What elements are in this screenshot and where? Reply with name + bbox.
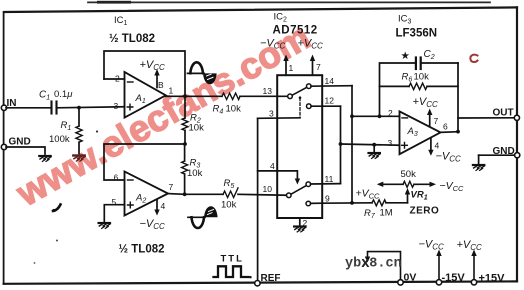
svg-text:6: 6: [114, 173, 119, 183]
node REF terminal: [255, 273, 281, 286]
svg-text:+VCC: +VCC: [298, 38, 324, 51]
op-amp A2: [112, 172, 174, 216]
svg-text:−VCC: −VCC: [140, 218, 166, 231]
svg-text:2: 2: [388, 108, 393, 118]
wire R4 to IC2 pin13: [240, 95, 288, 97]
node GND terminal left: [1, 137, 30, 150]
resistor R5 10k: [221, 178, 238, 211]
red curl mark: [470, 55, 477, 62]
resistor R3 10k: [182, 144, 203, 194]
op-amp A1: [114, 72, 174, 118]
svg-text:1: 1: [169, 86, 174, 96]
svg-text:A1: A1: [135, 93, 146, 105]
wire to OUT: [458, 117, 517, 119]
svg-text:★: ★: [401, 50, 411, 62]
svg-text:+VCC: +VCC: [413, 96, 439, 109]
node summing top: [350, 114, 354, 118]
svg-text:14: 14: [325, 76, 335, 86]
svg-text:10k: 10k: [226, 104, 242, 115]
svg-text:11: 11: [325, 174, 334, 184]
node pin12 line to A3 pin3: [339, 142, 343, 146]
wire pin11 out: [311, 174, 341, 184]
power arrow IC2 pin7: [310, 55, 321, 75]
wire pin3 REF into box: [258, 109, 300, 119]
IC2 AD7512 box: [277, 75, 322, 218]
svg-text:GND: GND: [9, 137, 31, 148]
label LF356N: [396, 28, 438, 40]
node GND terminal right: [493, 146, 520, 158]
resistor R2 10k: [182, 96, 204, 144]
label IC3: [398, 14, 412, 26]
svg-text:3: 3: [269, 109, 274, 119]
svg-text:OUT: OUT: [493, 108, 514, 119]
ground A3 pin3: [369, 153, 381, 158]
svg-text:4: 4: [435, 141, 440, 151]
svg-text:3: 3: [388, 138, 393, 148]
svg-text:A3: A3: [407, 126, 418, 138]
power +Vcc arrow A3 pin7: [413, 96, 439, 127]
label -Vcc IC2: [260, 38, 286, 51]
node A1 output junction: [183, 94, 187, 98]
wire C1 to A1 pin3: [58, 107, 125, 108]
svg-text:LF356N: LF356N: [396, 28, 438, 40]
wire 0V link: [365, 252, 401, 282]
power -Vcc arrow A3 pin4: [428, 139, 461, 164]
node 0V terminal: [398, 272, 417, 286]
wire GND right: [479, 155, 517, 163]
svg-text:REF: REF: [261, 273, 281, 284]
svg-text:IC1: IC1: [114, 15, 128, 27]
svg-text:6: 6: [443, 122, 448, 132]
TTL label: [221, 254, 244, 265]
svg-text:50k: 50k: [401, 169, 417, 180]
wire C2 feedback top: [380, 63, 459, 116]
svg-text:0.1μ: 0.1μ: [54, 89, 73, 100]
svg-text:3: 3: [114, 101, 119, 111]
resistor R7 1M: [364, 200, 408, 220]
speck dot 2: [56, 240, 58, 242]
svg-text:4: 4: [270, 161, 275, 171]
sine symbol 1: [188, 62, 217, 84]
svg-text:B: B: [158, 80, 164, 90]
svg-text:R5: R5: [224, 178, 235, 190]
svg-text:+VCC: +VCC: [140, 59, 166, 72]
op-amp A3: [388, 108, 449, 154]
label IC2: [274, 12, 288, 24]
svg-text:C2: C2: [424, 49, 435, 61]
svg-text:½ TL082: ½ TL082: [119, 244, 165, 256]
label pin10: [263, 184, 273, 194]
wire GND left: [6, 147, 45, 154]
capacitor C2: [416, 49, 435, 69]
resistor R6 10k feedback: [380, 72, 459, 90]
ground right: [473, 165, 485, 170]
node output junction: [456, 130, 460, 134]
label half TL082 bottom: [119, 244, 165, 256]
svg-text:7: 7: [316, 62, 321, 72]
svg-text:0V: 0V: [404, 272, 417, 284]
wiper VR1: [405, 188, 439, 217]
svg-text:+15V: +15V: [479, 273, 506, 285]
svg-text:12: 12: [325, 96, 335, 106]
svg-text:-15V: -15V: [442, 272, 466, 284]
svg-text:R1: R1: [61, 120, 72, 132]
label AD7512: [273, 25, 318, 37]
svg-text:1: 1: [289, 63, 294, 73]
svg-text:100k: 100k: [49, 134, 70, 145]
wire A1 feedback loop: [104, 51, 185, 96]
svg-text:ZERO: ZERO: [410, 206, 440, 217]
wire pin14 out: [311, 76, 352, 86]
label half TL082 top: [109, 33, 155, 45]
label IC1: [114, 15, 128, 27]
svg-text:13: 13: [263, 86, 273, 96]
wire A2 feedback: [104, 144, 185, 180]
black tick mark: [52, 205, 60, 213]
wire pin9 out to R7: [311, 194, 372, 204]
TTL square wave symbol: [214, 266, 252, 278]
switch S2 throw pin9: [306, 201, 311, 206]
switch S1 arm: [292, 87, 306, 95]
switch S2 throw pin11: [306, 182, 311, 187]
svg-text:9: 9: [325, 194, 330, 204]
power -Vcc arrow A2 pin4: [140, 200, 166, 231]
label pin13: [263, 86, 273, 96]
svg-text:7: 7: [434, 116, 439, 126]
wire IN to C1: [6, 107, 51, 109]
svg-text:+VCC: +VCC: [457, 239, 483, 252]
svg-text:10k: 10k: [187, 168, 203, 179]
wire REF vertical: [257, 118, 259, 281]
svg-text:10: 10: [263, 184, 273, 194]
svg-text:4: 4: [161, 201, 166, 211]
node junction C1/R1: [77, 106, 81, 110]
svg-text:7: 7: [169, 182, 174, 192]
switch S2 arm: [291, 186, 306, 195]
wire to A3 pin2: [352, 115, 400, 117]
svg-text:R6: R6: [402, 72, 413, 84]
wire A3 output: [441, 131, 459, 134]
svg-text:IC2: IC2: [274, 12, 288, 24]
wire pin4 REF into box: [258, 161, 301, 185]
speck dot 3: [34, 262, 36, 264]
svg-text:VR1: VR1: [411, 190, 428, 202]
wire A1 output to R4: [166, 95, 222, 97]
dashed control line S1: [299, 96, 302, 117]
power -15V terminal: [419, 239, 466, 285]
svg-text:x: x: [361, 256, 370, 272]
ground A2 pin5: [99, 223, 111, 228]
svg-text:ybx8.cn: ybx8.cn: [345, 257, 402, 272]
watermark www.elecfans.com: [9, 16, 317, 215]
label ybx8.cn: [345, 256, 402, 272]
wire IC2 pin2 to ground: [300, 218, 308, 228]
wire R5 to IC2 pin10: [238, 193, 287, 196]
speck dot 1: [96, 130, 98, 132]
capacitor C1: [39, 89, 73, 114]
resistor R1 100k: [49, 108, 82, 154]
svg-text:IC3: IC3: [398, 14, 412, 26]
svg-text:GND: GND: [493, 146, 515, 157]
node OUT terminal: [493, 108, 520, 121]
star mark: [401, 50, 411, 62]
power +15V terminal: [457, 239, 506, 285]
svg-text:−VCC: −VCC: [436, 151, 462, 164]
svg-text:−VCC: −VCC: [419, 239, 445, 252]
switch S1 throw pin14: [307, 84, 312, 89]
wire summing vertical pin14/pin9: [351, 86, 353, 203]
node IN terminal: [1, 98, 16, 111]
wire pin12 out: [311, 96, 340, 107]
svg-text:½ TL082: ½ TL082: [109, 33, 155, 45]
node feedback left: [378, 114, 382, 118]
power +Vcc arrow A1 pin B: [140, 59, 166, 90]
svg-text:−VCC: −VCC: [440, 180, 465, 193]
wire A2 output to R5: [168, 193, 223, 196]
svg-text:10k: 10k: [414, 72, 430, 83]
ground under R1 (watermark-stained): [73, 156, 85, 162]
svg-text:TTL: TTL: [221, 254, 244, 265]
node R2/R3 midpoint: [183, 142, 187, 146]
svg-text:10k: 10k: [221, 200, 237, 211]
wire A2 pin5 to ground: [104, 205, 124, 222]
scan artifact line top: [88, 1, 490, 4]
label +Vcc R7: [356, 188, 381, 201]
wire to A3 pin3: [341, 144, 400, 145]
svg-text:1M: 1M: [380, 208, 393, 219]
wire pin12-pin11 vertical: [340, 106, 342, 183]
power arrow IC2 pin1: [283, 55, 293, 75]
wire feedback right vertical: [457, 63, 459, 132]
node summing bottom: [350, 201, 354, 205]
switch S2 pole: [287, 193, 292, 198]
resistor R4 10k: [213, 93, 242, 115]
svg-text:10k: 10k: [189, 123, 205, 134]
svg-text:AD7512: AD7512: [273, 25, 318, 37]
node A2 output junction: [183, 192, 187, 196]
switch S1 throw pin12: [307, 104, 312, 109]
svg-text:+VCC: +VCC: [356, 188, 381, 201]
ground left: [39, 156, 51, 161]
svg-text:C1: C1: [39, 90, 50, 102]
svg-text:A2: A2: [135, 193, 146, 205]
switch S1 pole: [288, 94, 293, 99]
label +Vcc IC2: [298, 38, 324, 51]
ground IC2 pin2: [294, 227, 306, 232]
svg-text:R7: R7: [364, 208, 376, 220]
svg-text:2: 2: [115, 74, 120, 84]
potentiometer VR1 50k: [377, 169, 464, 193]
node ground tap A3 pin3: [372, 143, 376, 152]
sine symbol 2: [188, 206, 218, 228]
